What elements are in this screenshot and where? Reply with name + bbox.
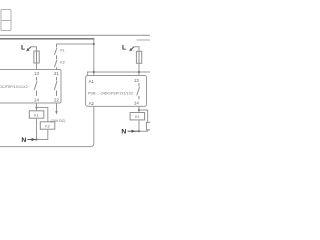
svg-text:13: 13 — [34, 71, 39, 76]
node junction (93.8,44) — [93, 43, 95, 45]
svg-text:N: N — [121, 128, 126, 135]
wire K2 to N (right) — [139, 130, 148, 131]
node junction (93.8,72) — [93, 71, 95, 73]
svg-text:14: 14 — [134, 100, 139, 105]
contact 13-14 (right) — [137, 83, 140, 99]
feedback line (right block) — [88, 72, 150, 76]
svg-text:21: 21 — [54, 71, 59, 76]
wire L to fuse F1 — [31, 47, 37, 51]
svg-text:K2: K2 — [60, 60, 64, 64]
node L (left) — [21, 44, 31, 51]
svg-text:K1: K1 — [135, 115, 139, 119]
wire 14 to coils (right) — [138, 106, 140, 112]
svg-text:13: 13 — [134, 78, 139, 83]
svg-text:K1: K1 — [34, 113, 38, 117]
relay U2 (right box) — [86, 76, 147, 107]
wire 22 to 24V — [56, 103, 58, 114]
arrow 24V — [55, 111, 58, 114]
contact 13-14 — [34, 77, 37, 96]
node L (right) — [122, 44, 134, 51]
title block table — [1, 10, 11, 31]
svg-text:N: N — [21, 137, 26, 144]
contact K1 (monitor) — [54, 45, 57, 60]
node junction (36.5,107.5) — [35, 106, 37, 108]
svg-text:PSR-...-24DC/FSP/1X1/1X2: PSR-...-24DC/FSP/1X1/1X2 — [0, 85, 28, 89]
node N (right) — [121, 128, 139, 135]
fuse F2 — [136, 51, 141, 63]
svg-text:(24V DC): (24V DC) — [51, 119, 66, 123]
frame rule (full width) — [0, 34, 150, 36]
svg-text:PSR-...-24DC/FSP/1X1/1X2: PSR-...-24DC/FSP/1X1/1X2 — [88, 92, 133, 96]
svg-text:L: L — [122, 44, 126, 51]
svg-text:A2: A2 — [89, 101, 95, 106]
wire K1 to N (right) — [138, 120, 140, 131]
node junction (139,110) — [138, 109, 140, 111]
wire A2 return — [0, 106, 94, 146]
bus stub (top right) — [137, 39, 150, 41]
svg-text:A1: A1 — [89, 79, 95, 84]
node junction (139,131.2) — [138, 130, 140, 132]
node N (left) — [21, 137, 36, 144]
svg-text:K2: K2 — [45, 124, 49, 128]
contact 21-22 — [54, 77, 57, 96]
wire L to fuse F2 — [134, 47, 139, 52]
coil K1 — [29, 111, 44, 118]
relay U1 (left box, clipped) — [0, 70, 61, 104]
wire branch to K2 coil — [37, 108, 48, 122]
node junction (36.5,139.5) — [35, 138, 37, 140]
wire 14 to coils — [36, 103, 38, 111]
L bus (dark, left) — [0, 38, 94, 40]
wire K1 to N — [36, 118, 38, 139]
wire K2 to N — [37, 129, 48, 139]
svg-text:L: L — [21, 44, 25, 51]
svg-text:22: 22 — [54, 97, 59, 102]
feed line to K1/K2 chain and A1 — [57, 44, 94, 45]
svg-text:14: 14 — [34, 97, 39, 102]
coil K2 (right, clipped) — [146, 122, 161, 129]
coil K2 — [40, 122, 55, 129]
contact K2 (monitor) — [54, 60, 57, 70]
wire fuse to 13 (right) — [138, 63, 140, 75]
wire fuse to 13 — [36, 63, 38, 70]
fuse F1 — [34, 51, 39, 63]
svg-text:K1: K1 — [60, 48, 64, 52]
wire bus to A1 — [93, 39, 95, 76]
wire branch to K2 coil (right) — [139, 110, 148, 122]
node junction (139,72) — [138, 71, 140, 73]
coil K1 (right) — [130, 113, 145, 120]
